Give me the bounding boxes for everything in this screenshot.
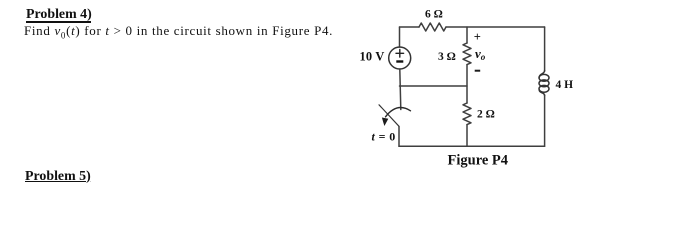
switch motion arrow arc	[386, 108, 411, 117]
svg-text:+: +	[474, 30, 481, 44]
label minus polarity of vo	[475, 70, 481, 72]
wire: switch bottom lead	[398, 127, 400, 147]
voltage source V1 10V circle	[389, 47, 411, 69]
title underline	[26, 21, 91, 23]
wire: middle branch top lead from top wire	[466, 27, 468, 43]
wire: left branch, node A down to source top	[399, 27, 401, 47]
switch motion arrowhead	[382, 118, 388, 127]
svg-text:10 V: 10 V	[360, 49, 385, 63]
voltage source plus sign	[396, 50, 404, 58]
resistor R1 6-ohm zigzag	[419, 23, 446, 31]
voltage source minus sign	[396, 60, 403, 62]
wire: middle horizontal from left branch to middle branch	[400, 85, 468, 87]
svg-text:2 Ω: 2 Ω	[477, 109, 495, 121]
resistor R3 2-ohm zigzag	[463, 103, 471, 125]
wire: bottom rail	[399, 145, 545, 147]
svg-text:t = 0: t = 0	[372, 130, 396, 144]
wire: right branch top	[544, 27, 546, 71]
resistor R2 3-ohm zigzag	[463, 43, 471, 65]
svg-text:Figure P4: Figure P4	[448, 153, 509, 169]
wire: 2-ohm bottom lead to bottom wire	[466, 125, 468, 147]
svg-text:6 Ω: 6 Ω	[425, 9, 443, 21]
problem title text	[26, 7, 92, 23]
wire: node A to 6-ohm resistor (top left)	[400, 26, 420, 28]
partial next problem title	[25, 169, 91, 185]
svg-text:4 H: 4 H	[556, 79, 574, 91]
switch blade (open, rotated left)	[379, 105, 399, 127]
svg-text:vo: vo	[475, 46, 486, 62]
wire: source bottom down to switch top contact	[400, 69, 401, 110]
wire: 3-ohm bottom lead to middle node	[466, 65, 468, 103]
problem statement text	[24, 23, 333, 41]
wire: 6-ohm to top-right corner	[446, 26, 545, 28]
wire: right branch bottom	[544, 95, 546, 146]
inductor L1 4H coil	[539, 71, 544, 78]
svg-text:3 Ω: 3 Ω	[438, 51, 456, 63]
